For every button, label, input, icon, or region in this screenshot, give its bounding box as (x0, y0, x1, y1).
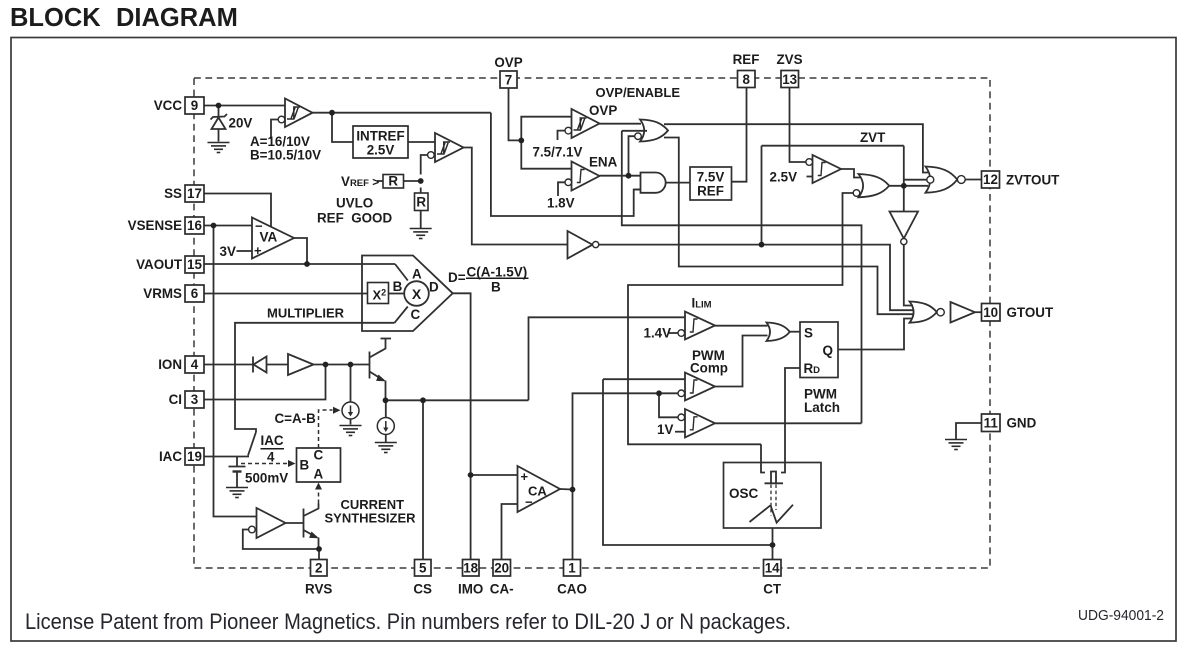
bubble row B inverter output (593, 242, 599, 248)
comparator ILIM triangle (685, 312, 715, 340)
OR gate before latch S input (767, 323, 790, 342)
svg-text:Comp: Comp (690, 361, 728, 376)
comparator PWM Comp triangle (685, 373, 715, 401)
bubble synthesizer buffer (249, 526, 256, 533)
svg-text:A: A (412, 267, 422, 282)
wire OR output tap1 row to ZVT NOR top input (664, 124, 928, 172)
svg-text:19: 19 (187, 449, 202, 464)
node dot VCC zener (216, 103, 222, 109)
inverter REFGOOD row B (568, 231, 593, 259)
wire VCC row pin9 to UVLO comparator (204, 105, 285, 107)
bubble ZVT OR gate input (853, 190, 860, 197)
svg-text:1.8V: 1.8V (547, 196, 575, 211)
wire OSC clock entry (761, 444, 765, 472)
bubble PWM comp (678, 390, 685, 397)
IC boundary dashed box (194, 78, 990, 568)
current synthesizer box (297, 448, 341, 482)
svg-text:C=A-B: C=A-B (275, 411, 317, 426)
node dot Q1 emitter (383, 397, 389, 403)
comparator ENA triangle (572, 162, 600, 191)
svg-text:10: 10 (983, 305, 998, 320)
wire emitter row up to ILIM comparator (529, 317, 686, 400)
wire ZVT NOR bubble input stub (904, 179, 927, 181)
svg-text:REF: REF (697, 184, 724, 199)
ground below zener (208, 143, 230, 153)
wire node to R2 (420, 188, 422, 194)
svg-text:VCC: VCC (154, 98, 183, 113)
pin 16 VSENSE (185, 217, 204, 234)
diode D2 (pointing left) (252, 357, 254, 373)
svg-text:4: 4 (267, 450, 275, 465)
svg-text:B: B (300, 458, 310, 473)
buffer GTOUT (951, 302, 976, 323)
svg-text:8: 8 (742, 72, 750, 87)
svg-text:C(A-1.5V): C(A-1.5V) (467, 265, 528, 280)
svg-text:Latch: Latch (804, 400, 840, 415)
wire CA output node (560, 488, 573, 491)
wire Q2 emitter to RVS node (318, 538, 320, 550)
svg-text:RVS: RVS (305, 582, 332, 597)
svg-text:16: 16 (187, 218, 202, 233)
svg-text:B=10.5/10V: B=10.5/10V (250, 148, 321, 163)
pin 2 RVS (311, 560, 328, 577)
bubble ENA comp (565, 179, 572, 186)
hysteresis glyph 2.5V comp (818, 163, 826, 176)
pin 7 OVP (500, 71, 517, 88)
svg-text:REF GOOD: REF GOOD (317, 211, 392, 226)
wire node to current source 2 (385, 400, 387, 417)
wire VREF arrow to R1 (377, 180, 383, 182)
node dot CS (420, 397, 426, 403)
svg-text:17: 17 (187, 186, 202, 201)
svg-text:R: R (388, 174, 398, 189)
wire UVLO comp output row (313, 112, 491, 114)
ZVT OR gate (859, 174, 890, 197)
node dot PWM minus (656, 390, 662, 396)
wire X2 to X circle B input (389, 293, 405, 295)
wire 2.5V comp output to ZVT OR (841, 169, 860, 178)
svg-text:SYNTHESIZER: SYNTHESIZER (325, 511, 417, 526)
bubble down inverter output (901, 239, 907, 245)
svg-text:X: X (412, 286, 422, 302)
INTREF 2.5V box (353, 126, 408, 158)
wire SS to VA top (204, 194, 271, 227)
svg-text:2: 2 (315, 561, 322, 576)
switch blade IAC/4 (248, 432, 256, 456)
wire current source 2 to ground (385, 435, 387, 443)
wire CS pin branch (422, 400, 424, 559)
pin 18 IMO (463, 560, 480, 577)
svg-text:14: 14 (765, 561, 780, 576)
node dot CT (770, 542, 776, 548)
svg-text:UDG-94001-2: UDG-94001-2 (1078, 607, 1164, 624)
7.5V REF box (690, 167, 732, 200)
wire ZVT feedback riser from row B (761, 146, 763, 245)
wire RD input to OSC (781, 368, 800, 473)
node dot CAO (570, 487, 576, 493)
svg-text:GND: GND (1007, 416, 1037, 431)
node dot row B tee (759, 242, 765, 248)
wire buffer output to Q2 base (286, 522, 304, 524)
transistor Q2 (303, 509, 305, 538)
formula fraction bar (466, 277, 529, 279)
wire buffer to pin 10 (975, 311, 982, 313)
bubble REFGOOD comp (428, 152, 435, 159)
svg-text:INTREF: INTREF (356, 129, 404, 144)
wire buffer feedback from emitter node (243, 530, 319, 550)
node dot ZVT OR output (901, 183, 907, 189)
svg-text:Q: Q (823, 343, 834, 358)
wire OVP bubble stub (558, 131, 566, 140)
hysteresis glyph ENA comp (577, 170, 585, 183)
wire 2.5V label stub (807, 176, 813, 178)
svg-text:B: B (393, 279, 403, 294)
bubble ILIM comp (678, 330, 685, 337)
wire 3V to VA plus input (237, 250, 253, 252)
node dot RVS (316, 546, 322, 552)
pin 15 VAOUT (185, 256, 204, 273)
svg-text:CT: CT (763, 582, 782, 597)
svg-text:C: C (314, 448, 324, 463)
svg-text:D: D (429, 280, 439, 295)
inverter (down) U5 (890, 212, 919, 239)
op-amp VA (252, 218, 294, 259)
hysteresis glyph UVLO comp (287, 107, 300, 119)
wire VRMS row to X2 box (204, 293, 368, 295)
pin 8 REF (738, 71, 756, 88)
svg-text:ZVT: ZVT (860, 130, 886, 145)
AND gate ENABLE (641, 173, 666, 193)
svg-text:D=: D= (448, 270, 466, 285)
bubble ZVT NOR output (957, 176, 965, 184)
wire junction down to ENA comparator (521, 140, 571, 168)
wire S input (790, 331, 801, 333)
buffer amplifier ION (288, 354, 314, 375)
svg-text:IAC: IAC (261, 433, 284, 448)
pin 9 VCC (185, 97, 204, 114)
svg-text:C: C (411, 307, 421, 322)
wire INTREF input branch (332, 113, 353, 142)
wire diode to buffer (267, 364, 289, 366)
svg-text:GTOUT: GTOUT (1007, 305, 1054, 320)
wire REFGOOD output down to row B (464, 148, 568, 245)
wire IAC row (204, 456, 249, 458)
wire CA output up to PWM comp minus row (573, 393, 678, 489)
wire RVS node to pin 2 (318, 549, 320, 560)
svg-text:B: B (491, 280, 501, 295)
bubble 1V comp (678, 414, 685, 421)
current source I2 (377, 418, 394, 435)
wire VA output to VAOUT row (294, 238, 307, 264)
svg-text:VRMS: VRMS (143, 286, 182, 301)
arrowhead into current source 1 (333, 407, 341, 414)
dashed control B input from battery (241, 463, 288, 465)
svg-text:20: 20 (494, 561, 509, 576)
wire OR bubble input from ENA row (629, 136, 635, 176)
wire 1V label stub (675, 431, 685, 433)
wire R2 to ground (420, 211, 422, 229)
wire CAO pin branch (572, 490, 574, 560)
ZVT NOR gate (926, 167, 958, 193)
svg-text:ENA: ENA (589, 155, 618, 170)
multiplier X circle (404, 281, 429, 306)
wire ZVT OR output row to ZVT NOR (889, 185, 928, 187)
node dot ENA row (626, 173, 632, 179)
op-amp CA (518, 466, 561, 512)
svg-text:ION: ION (158, 357, 182, 372)
wire IMO branch to CA plus input (471, 474, 518, 476)
svg-text:CS: CS (413, 582, 432, 597)
svg-text:7: 7 (505, 73, 512, 88)
GT NOR gate (4 input) (910, 302, 937, 323)
svg-text:VSENSE: VSENSE (128, 218, 182, 233)
svg-text:BLOCKDIAGRAM: BLOCKDIAGRAM (10, 4, 238, 32)
svg-text:12: 12 (983, 172, 998, 187)
wire riser 1V net from OR mid input down to row A (622, 131, 862, 424)
comparator UVLO (A/B thresholds) (285, 99, 313, 128)
wire ILIM output to S-OR gate (715, 325, 768, 327)
svg-text:500mV: 500mV (245, 471, 288, 486)
svg-text:R: R (416, 195, 426, 210)
svg-text:OVP/ENABLE: OVP/ENABLE (596, 85, 681, 100)
svg-text:20V: 20V (229, 116, 253, 131)
pin 20 CA- (493, 560, 511, 577)
wire current source 1 to ground (350, 419, 352, 425)
wire OSC output to CT pin (772, 528, 774, 560)
ground below R2 (410, 229, 432, 239)
node dot ION source (348, 362, 354, 368)
svg-text:+: + (254, 243, 262, 258)
zener diode D1 20V (212, 118, 226, 130)
node dot VAOUT (304, 261, 310, 267)
pin 6 VRMS (185, 285, 204, 302)
wire ENA output row to AND gate (600, 175, 642, 177)
synthesizer buffer amplifier (257, 508, 286, 538)
wire OR output tap2 down to row C (664, 138, 914, 315)
svg-text:CA-: CA- (490, 582, 514, 597)
wire 1.4V stub to ILIM bubble (669, 332, 678, 334)
wire zener stem (218, 106, 220, 118)
pin 19 IAC (185, 448, 204, 465)
pin 1 CAO (564, 560, 581, 577)
node dot OVP junction (518, 138, 524, 144)
bubble ZVT NOR input (927, 176, 934, 183)
resistor R2 box (415, 193, 429, 211)
ground below current source 1 (340, 426, 362, 436)
svg-text:REF: REF (733, 52, 760, 67)
multiplier inner C input diagonal (395, 307, 408, 323)
svg-text:7.5/7.1V: 7.5/7.1V (533, 145, 583, 160)
svg-text:ZVS: ZVS (776, 52, 802, 67)
wire INTREF output to REF GOOD comp (408, 141, 435, 143)
bubble OVP OR gate input (635, 133, 642, 140)
svg-text:CI: CI (169, 392, 182, 407)
current source I1 (342, 402, 359, 419)
IAC/4 fraction bar (261, 448, 285, 450)
pin 4 ION (185, 356, 204, 373)
svg-text:−: − (525, 495, 533, 510)
wire ZVT OR bubble input riser to OSC row (628, 193, 853, 444)
node dot IMO (468, 472, 474, 478)
svg-text:IAC: IAC (159, 449, 182, 464)
wire UVLO long row down and right to AND gate (491, 113, 641, 216)
hysteresis glyph 1V comp (690, 417, 698, 430)
svg-text:A: A (314, 467, 324, 482)
svg-text:15: 15 (187, 257, 202, 272)
pin 17 SS (185, 185, 204, 202)
wire 1V comp output row to right riser (715, 422, 862, 424)
wire PWM comp plus input row from CT (603, 378, 685, 380)
svg-text:CAO: CAO (557, 582, 587, 597)
svg-text:3V: 3V (220, 244, 236, 259)
svg-text:6: 6 (191, 286, 198, 301)
svg-text:S: S (804, 326, 813, 341)
wire OVP comp output to OR gate (600, 123, 642, 125)
svg-text:1: 1 (568, 561, 576, 576)
wire CT net from PWM comp input down to OSC bottom (603, 379, 773, 545)
wire ZVTOUT to pin 12 (965, 179, 981, 181)
hysteresis glyph PWM comp (690, 380, 698, 393)
svg-text:+: + (521, 469, 529, 484)
OSC box (724, 463, 822, 529)
wire VSENSE to VA minus input (204, 225, 252, 227)
wire UVLO bubble stub (271, 120, 278, 140)
wire ION row to diode (204, 364, 253, 366)
svg-text:11: 11 (984, 416, 999, 431)
bubble GT NOR output (937, 309, 944, 316)
wire junction up to OVP comparator (521, 117, 571, 141)
wire emitter row to ILIM branch (386, 399, 529, 401)
OSC internal dashed ramp reference (771, 485, 776, 516)
OSC sawtooth waveform (750, 505, 771, 522)
pin 5 CS (415, 560, 432, 577)
wire buffer output to Q1 base (314, 364, 370, 366)
resistor R1 box (383, 175, 404, 189)
pin 3 CI (185, 391, 204, 408)
dashed control A input from Q2 collector (318, 489, 320, 504)
wire Q output to GT NOR bottom input (838, 319, 912, 350)
arrowhead into synthesizer A input (315, 483, 322, 490)
wire branch to 1V comp input (659, 393, 678, 417)
svg-text:UVLO: UVLO (336, 196, 373, 211)
svg-text:9: 9 (191, 98, 198, 113)
wire CI branch (204, 365, 326, 400)
wire pin7 down to OVP/ENA junction (509, 88, 522, 140)
svg-text:−: − (255, 219, 263, 234)
svg-text:MULTIPLIER: MULTIPLIER (267, 306, 345, 321)
svg-text:5: 5 (419, 561, 427, 576)
wire AND bottom input stub (634, 189, 641, 191)
wire multiplier D output to IMO vertical (453, 293, 471, 559)
svg-text:2.5V: 2.5V (770, 170, 798, 185)
bubble 2.5V comp (806, 159, 813, 166)
svg-text:OVP: OVP (589, 103, 617, 118)
OR gate OVP/ENABLE (640, 120, 668, 142)
bubble OVP comp (565, 127, 572, 134)
wire REFGOOD bubble to VREF node (421, 155, 428, 175)
svg-text:OSC: OSC (729, 486, 759, 501)
pin 11 GND (982, 414, 1001, 432)
wire PWM comp output to S-OR gate (715, 336, 768, 387)
wire AND output to 7.5V REF box (666, 182, 690, 184)
OSC internal cap symbol (771, 472, 776, 484)
wire VSENSE branch down to synthesizer buffer (214, 226, 257, 517)
battery 500mV (236, 457, 238, 467)
bubble UVLO comp (278, 116, 285, 123)
wire inverter output to GT NOR top input (904, 245, 913, 306)
node dot ION-CI (323, 362, 329, 368)
ground below current source 2 (375, 443, 397, 453)
svg-text:1.4V: 1.4V (644, 326, 672, 341)
comparator REF GOOD (435, 133, 464, 162)
svg-text:VAOUT: VAOUT (136, 257, 183, 272)
node dot VREF divider (418, 178, 424, 184)
wire branch to current source 1 (350, 365, 352, 403)
wire R1 to node (404, 180, 421, 182)
svg-text:7.5V: 7.5V (697, 170, 725, 185)
svg-text:4: 4 (191, 357, 199, 372)
arrowhead into synthesizer B input (288, 460, 296, 467)
wire Q1 emitter down to node (385, 381, 387, 401)
comparator 2.5V triangle (813, 155, 842, 183)
svg-text:1V: 1V (657, 422, 673, 437)
hysteresis glyph REFGOOD comp (437, 142, 450, 154)
node dot UVLO output (329, 110, 335, 116)
svg-text:OVP: OVP (494, 55, 522, 70)
wire 7.5V REF to pin 8 (732, 88, 747, 182)
svg-text:3: 3 (191, 392, 198, 407)
PWM latch box (800, 322, 838, 378)
svg-text:License Patent from Pioneer Ma: License Patent from Pioneer Magnetics. P… (25, 609, 791, 634)
ground below battery (226, 488, 248, 498)
wire pin 13 ZVS down to 2.5V comparator (790, 88, 807, 163)
wire VAOUT row into multiplier A input (204, 263, 395, 265)
dashed control C=A-B to current source 1 (319, 410, 333, 448)
pin 14 CT (764, 560, 782, 577)
node dot VSENSE (211, 223, 217, 229)
pin 13 ZVS (781, 71, 799, 88)
comparator OVP triangle (572, 109, 600, 138)
pin 10 GTOUT (982, 304, 1001, 322)
wire ZVT feedback row (762, 145, 904, 147)
multiplier C input line from bottom row (235, 323, 395, 432)
svg-text:18: 18 (463, 561, 478, 576)
svg-text:ZVTOUT: ZVTOUT (1006, 173, 1060, 188)
hysteresis glyph ILIM comp (690, 319, 698, 332)
pin 12 ZVTOUT (982, 171, 1000, 188)
X squared box (368, 283, 389, 304)
wire ENA bubble stub (558, 182, 565, 196)
wire CA- pin to CA minus input (502, 504, 518, 560)
ground for pin 11 (945, 440, 967, 450)
transistor Q1 (369, 352, 371, 379)
comparator 1V triangle (685, 409, 715, 438)
svg-text:SS: SS (164, 186, 182, 201)
wire row B inverter output to GT NOR in2 (599, 245, 913, 311)
svg-text:IMO: IMO (458, 582, 483, 597)
hysteresis glyph OVP comp (574, 118, 587, 130)
wire GND pin 11 to ground (956, 423, 982, 439)
wire OR mid input from 1V net riser (622, 130, 647, 132)
svg-text:2.5V: 2.5V (367, 143, 395, 158)
wire ZVT node down through bubble input and inverter (903, 146, 905, 212)
svg-text:13: 13 (782, 72, 797, 87)
multiplier outline (362, 256, 453, 332)
